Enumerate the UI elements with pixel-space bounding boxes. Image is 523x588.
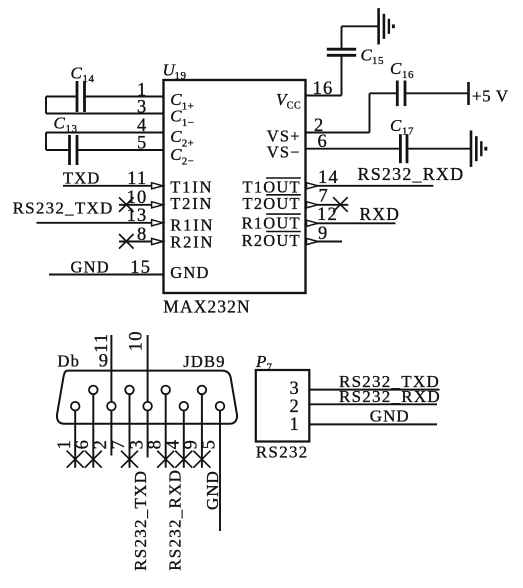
svg-text:RXD: RXD: [360, 204, 401, 224]
svg-text:RS232_RXD: RS232_RXD: [166, 469, 185, 571]
svg-text:12: 12: [317, 205, 338, 225]
svg-text:MAX232N: MAX232N: [163, 296, 250, 316]
svg-text:7: 7: [319, 186, 329, 206]
svg-text:2: 2: [290, 397, 300, 417]
svg-text:RS232_RXD: RS232_RXD: [358, 164, 465, 184]
svg-text:3: 3: [127, 439, 147, 449]
svg-text:16: 16: [402, 69, 414, 81]
svg-text:C: C: [71, 64, 84, 83]
svg-text:16: 16: [313, 79, 334, 99]
svg-text:T2OUT: T2OUT: [243, 194, 301, 213]
svg-text:2−: 2−: [182, 156, 194, 168]
svg-text:14: 14: [318, 168, 339, 188]
svg-text:3: 3: [137, 97, 147, 117]
svg-text:1: 1: [290, 415, 300, 435]
svg-text:R1OUT: R1OUT: [242, 214, 301, 233]
svg-text:1: 1: [55, 439, 75, 449]
svg-text:TXD: TXD: [63, 169, 101, 188]
svg-text:11: 11: [92, 333, 112, 353]
svg-text:T2IN: T2IN: [170, 194, 213, 213]
svg-text:RS232_TXD: RS232_TXD: [131, 470, 150, 571]
svg-text:3: 3: [290, 379, 300, 399]
svg-text:9: 9: [99, 352, 109, 372]
svg-text:5: 5: [137, 134, 147, 154]
svg-text:10: 10: [127, 188, 148, 208]
svg-text:VS−: VS−: [267, 143, 301, 162]
svg-text:10: 10: [127, 330, 147, 351]
svg-text:GND: GND: [71, 258, 110, 277]
svg-text:+5 V: +5 V: [472, 86, 509, 105]
svg-text:GND: GND: [370, 407, 410, 426]
svg-text:R2IN: R2IN: [170, 232, 214, 251]
svg-text:RS232: RS232: [256, 443, 309, 462]
svg-text:2: 2: [91, 439, 111, 449]
svg-text:5: 5: [200, 439, 220, 449]
svg-text:JDB9: JDB9: [183, 352, 225, 371]
svg-text:RS232_TXD: RS232_TXD: [13, 199, 114, 218]
svg-text:7: 7: [267, 361, 273, 373]
svg-text:9: 9: [182, 439, 202, 449]
svg-text:15: 15: [130, 258, 151, 278]
svg-text:Db: Db: [58, 352, 81, 371]
svg-text:8: 8: [137, 225, 147, 245]
svg-text:C: C: [54, 114, 67, 133]
svg-text:2+: 2+: [182, 138, 194, 150]
svg-text:11: 11: [127, 169, 147, 189]
svg-text:14: 14: [83, 73, 95, 85]
svg-text:15: 15: [372, 55, 384, 67]
svg-text:GND: GND: [170, 263, 209, 282]
svg-text:1+: 1+: [182, 100, 194, 112]
svg-text:8: 8: [145, 439, 165, 449]
svg-text:9: 9: [318, 224, 328, 244]
svg-text:CC: CC: [287, 100, 301, 111]
svg-text:GND: GND: [203, 470, 222, 510]
svg-text:19: 19: [175, 70, 187, 82]
svg-text:R2OUT: R2OUT: [242, 231, 301, 250]
svg-text:13: 13: [127, 206, 148, 226]
svg-text:7: 7: [109, 439, 129, 449]
svg-text:4: 4: [164, 439, 184, 449]
svg-text:6: 6: [318, 132, 328, 152]
svg-text:17: 17: [402, 126, 414, 138]
svg-text:C: C: [390, 116, 403, 135]
svg-text:1−: 1−: [182, 117, 194, 129]
svg-text:C: C: [390, 59, 403, 78]
svg-text:6: 6: [73, 439, 93, 449]
svg-text:RS232_RXD: RS232_RXD: [339, 387, 441, 406]
